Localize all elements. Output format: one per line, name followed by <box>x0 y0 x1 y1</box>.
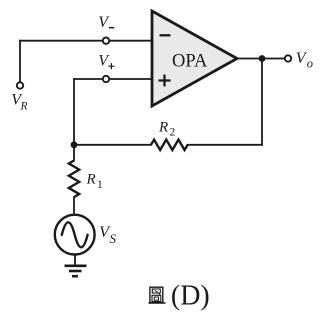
wire R1 to source <box>73 198 75 215</box>
ground <box>65 266 87 276</box>
terminal Vo <box>285 55 291 61</box>
junction output node <box>259 55 266 62</box>
pin - symbol <box>160 34 171 36</box>
svg-text:2: 2 <box>170 126 176 138</box>
wire V- horizontal <box>20 40 152 42</box>
wire feedback left horizontal <box>74 144 151 146</box>
op-amp U1 <box>152 11 237 106</box>
terminal V+ <box>103 76 109 82</box>
svg-text:R: R <box>20 101 28 113</box>
svg-text:V: V <box>98 14 110 31</box>
terminal V- <box>103 38 109 44</box>
caption 圖(D) <box>148 287 165 303</box>
svg-text:V: V <box>98 53 110 70</box>
wire source to ground <box>74 254 76 264</box>
svg-text:R: R <box>158 119 168 135</box>
source VS <box>55 215 95 255</box>
svg-text:S: S <box>110 231 117 246</box>
svg-text:OPA: OPA <box>172 51 208 71</box>
pin + symbol <box>159 75 171 87</box>
junction inverting node <box>71 141 78 148</box>
wire inverting-input vertical <box>73 79 75 161</box>
svg-text:(D): (D) <box>171 281 210 312</box>
wire feedback right horizontal <box>188 144 262 146</box>
svg-text:o: o <box>307 57 313 71</box>
resistor R1 <box>69 161 79 198</box>
terminal VR <box>17 82 23 88</box>
svg-text:R: R <box>86 171 96 187</box>
wire V+ horizontal <box>74 78 152 80</box>
resistor R2 <box>151 140 188 150</box>
wire feedback vertical <box>261 59 263 145</box>
wire output <box>237 58 285 60</box>
wire VR vertical <box>19 41 21 83</box>
svg-text:1: 1 <box>97 179 103 191</box>
